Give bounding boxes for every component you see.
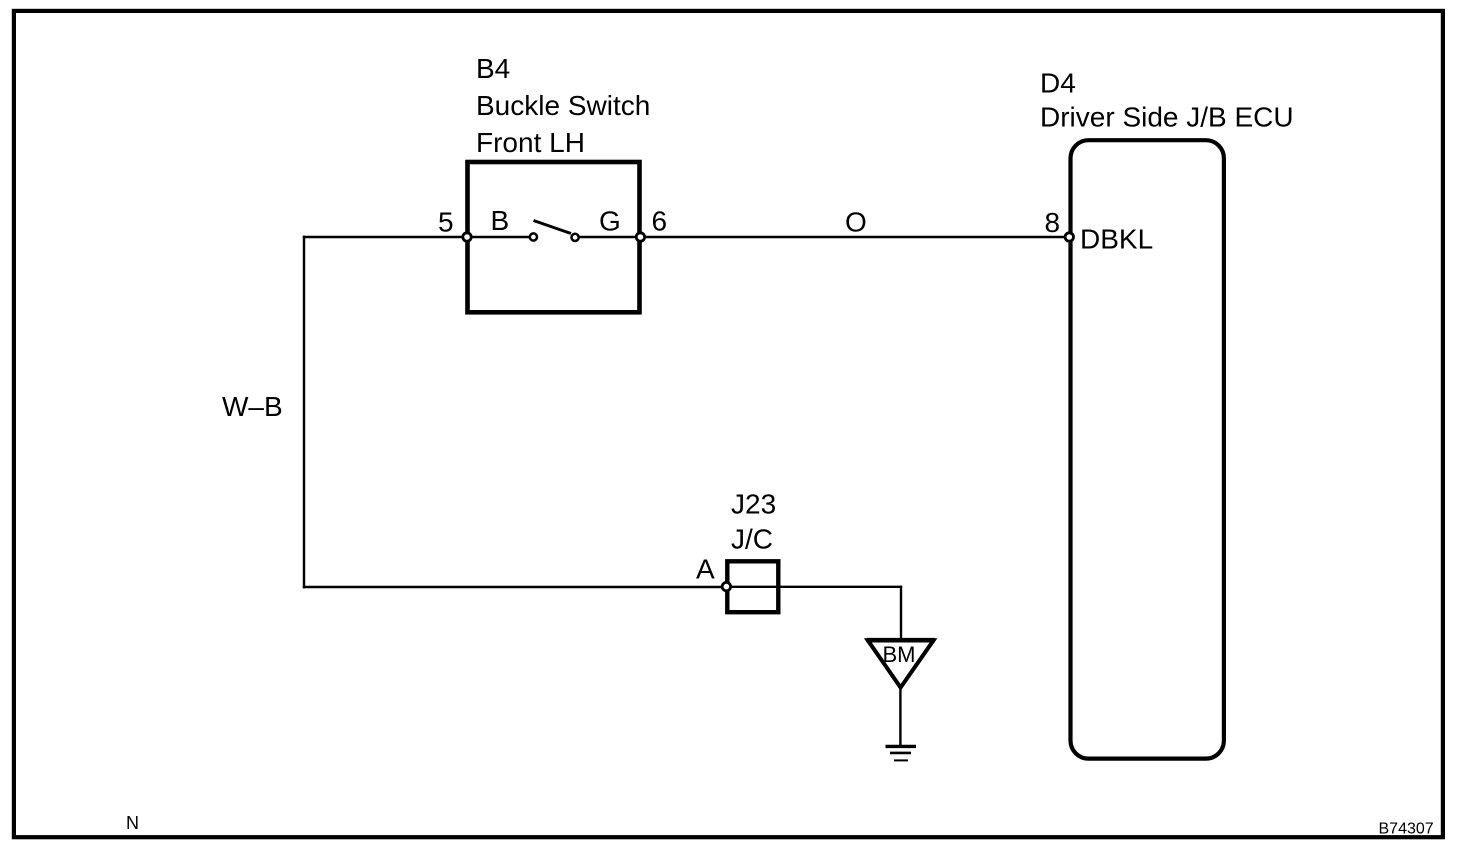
- svg-text:8: 8: [1045, 207, 1061, 238]
- svg-text:J/C: J/C: [731, 524, 773, 555]
- wire W-B: pin 5 left run: [303, 236, 467, 238]
- ground point triangle BM: [868, 640, 934, 687]
- pin 8 terminal circle: [1065, 233, 1073, 241]
- svg-text:6: 6: [652, 206, 668, 237]
- wire W-B: vertical run: [303, 236, 305, 588]
- ECU D4 rounded box: [1071, 140, 1224, 758]
- pin 5 terminal circle: [463, 233, 471, 241]
- wire inside B4 from pin 5 to contact B: [467, 236, 533, 238]
- svg-text:Driver Side J/B ECU: Driver Side J/B ECU: [1040, 102, 1294, 133]
- wire inside B4 from contact G to pin 6: [575, 236, 640, 238]
- ground symbol: [886, 746, 917, 760]
- svg-text:BM: BM: [883, 642, 916, 667]
- svg-text:Front LH: Front LH: [476, 127, 585, 158]
- wire triangle apex to ground symbol: [899, 686, 901, 746]
- svg-text:DBKL: DBKL: [1080, 224, 1153, 255]
- wire O: pin 6 to pin 8: [640, 236, 1069, 238]
- switch contact G circle: [572, 234, 579, 241]
- switch lever (open): [534, 221, 572, 234]
- wire corner down to ground triangle BM: [900, 586, 902, 641]
- node A terminal circle: [722, 582, 730, 590]
- svg-text:Buckle Switch: Buckle Switch: [476, 90, 650, 121]
- svg-text:G: G: [599, 206, 621, 237]
- svg-text:A: A: [696, 553, 715, 584]
- svg-text:W–B: W–B: [222, 391, 283, 422]
- wire node A through J/C to corner: [726, 586, 902, 588]
- svg-text:B74307: B74307: [1379, 820, 1434, 837]
- svg-text:B4: B4: [476, 53, 510, 84]
- ground triangle top bar: [867, 638, 935, 643]
- svg-text:J23: J23: [731, 488, 776, 519]
- wire W-B: bottom run to node A: [303, 586, 727, 588]
- buckle switch B4 box: [468, 162, 640, 312]
- svg-text:D4: D4: [1040, 68, 1076, 99]
- junction connector J23 box: [727, 561, 778, 612]
- svg-text:O: O: [845, 206, 867, 237]
- pin 6 terminal circle: [636, 233, 644, 241]
- switch contact B circle: [530, 233, 537, 240]
- svg-text:N: N: [126, 813, 139, 833]
- svg-text:5: 5: [438, 206, 454, 237]
- svg-text:B: B: [491, 205, 510, 236]
